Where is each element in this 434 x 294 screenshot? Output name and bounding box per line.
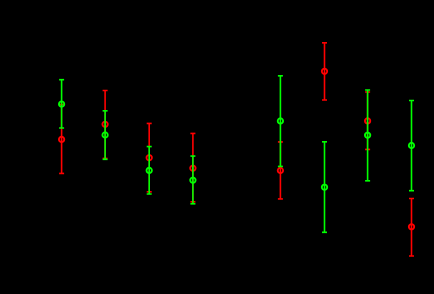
green errorbar cluster 1 [59, 80, 64, 128]
green errorbar cluster 6 [322, 142, 327, 233]
green errorbar cluster 2 [102, 111, 107, 160]
red errorbar cluster 6 [322, 43, 327, 100]
green errorbar cluster 8 [409, 101, 414, 191]
green errorbar cluster 5 [278, 76, 283, 167]
red errorbar cluster 2 [102, 91, 107, 159]
green errorbar cluster 4 [190, 156, 195, 204]
RED SERIES (drawn first, under green) [59, 43, 414, 256]
GREEN SERIES (drawn on top of red) [59, 76, 414, 233]
red errorbar cluster 3 [147, 123, 152, 191]
green errorbar cluster 3 [147, 147, 152, 194]
red errorbar cluster 8 [409, 199, 414, 257]
red errorbar cluster 5 [278, 142, 283, 199]
red errorbar cluster 1 [59, 104, 64, 173]
red errorbar cluster 4 [190, 133, 195, 201]
red errorbar cluster 7 [365, 92, 370, 149]
green errorbar cluster 7 [365, 90, 370, 181]
